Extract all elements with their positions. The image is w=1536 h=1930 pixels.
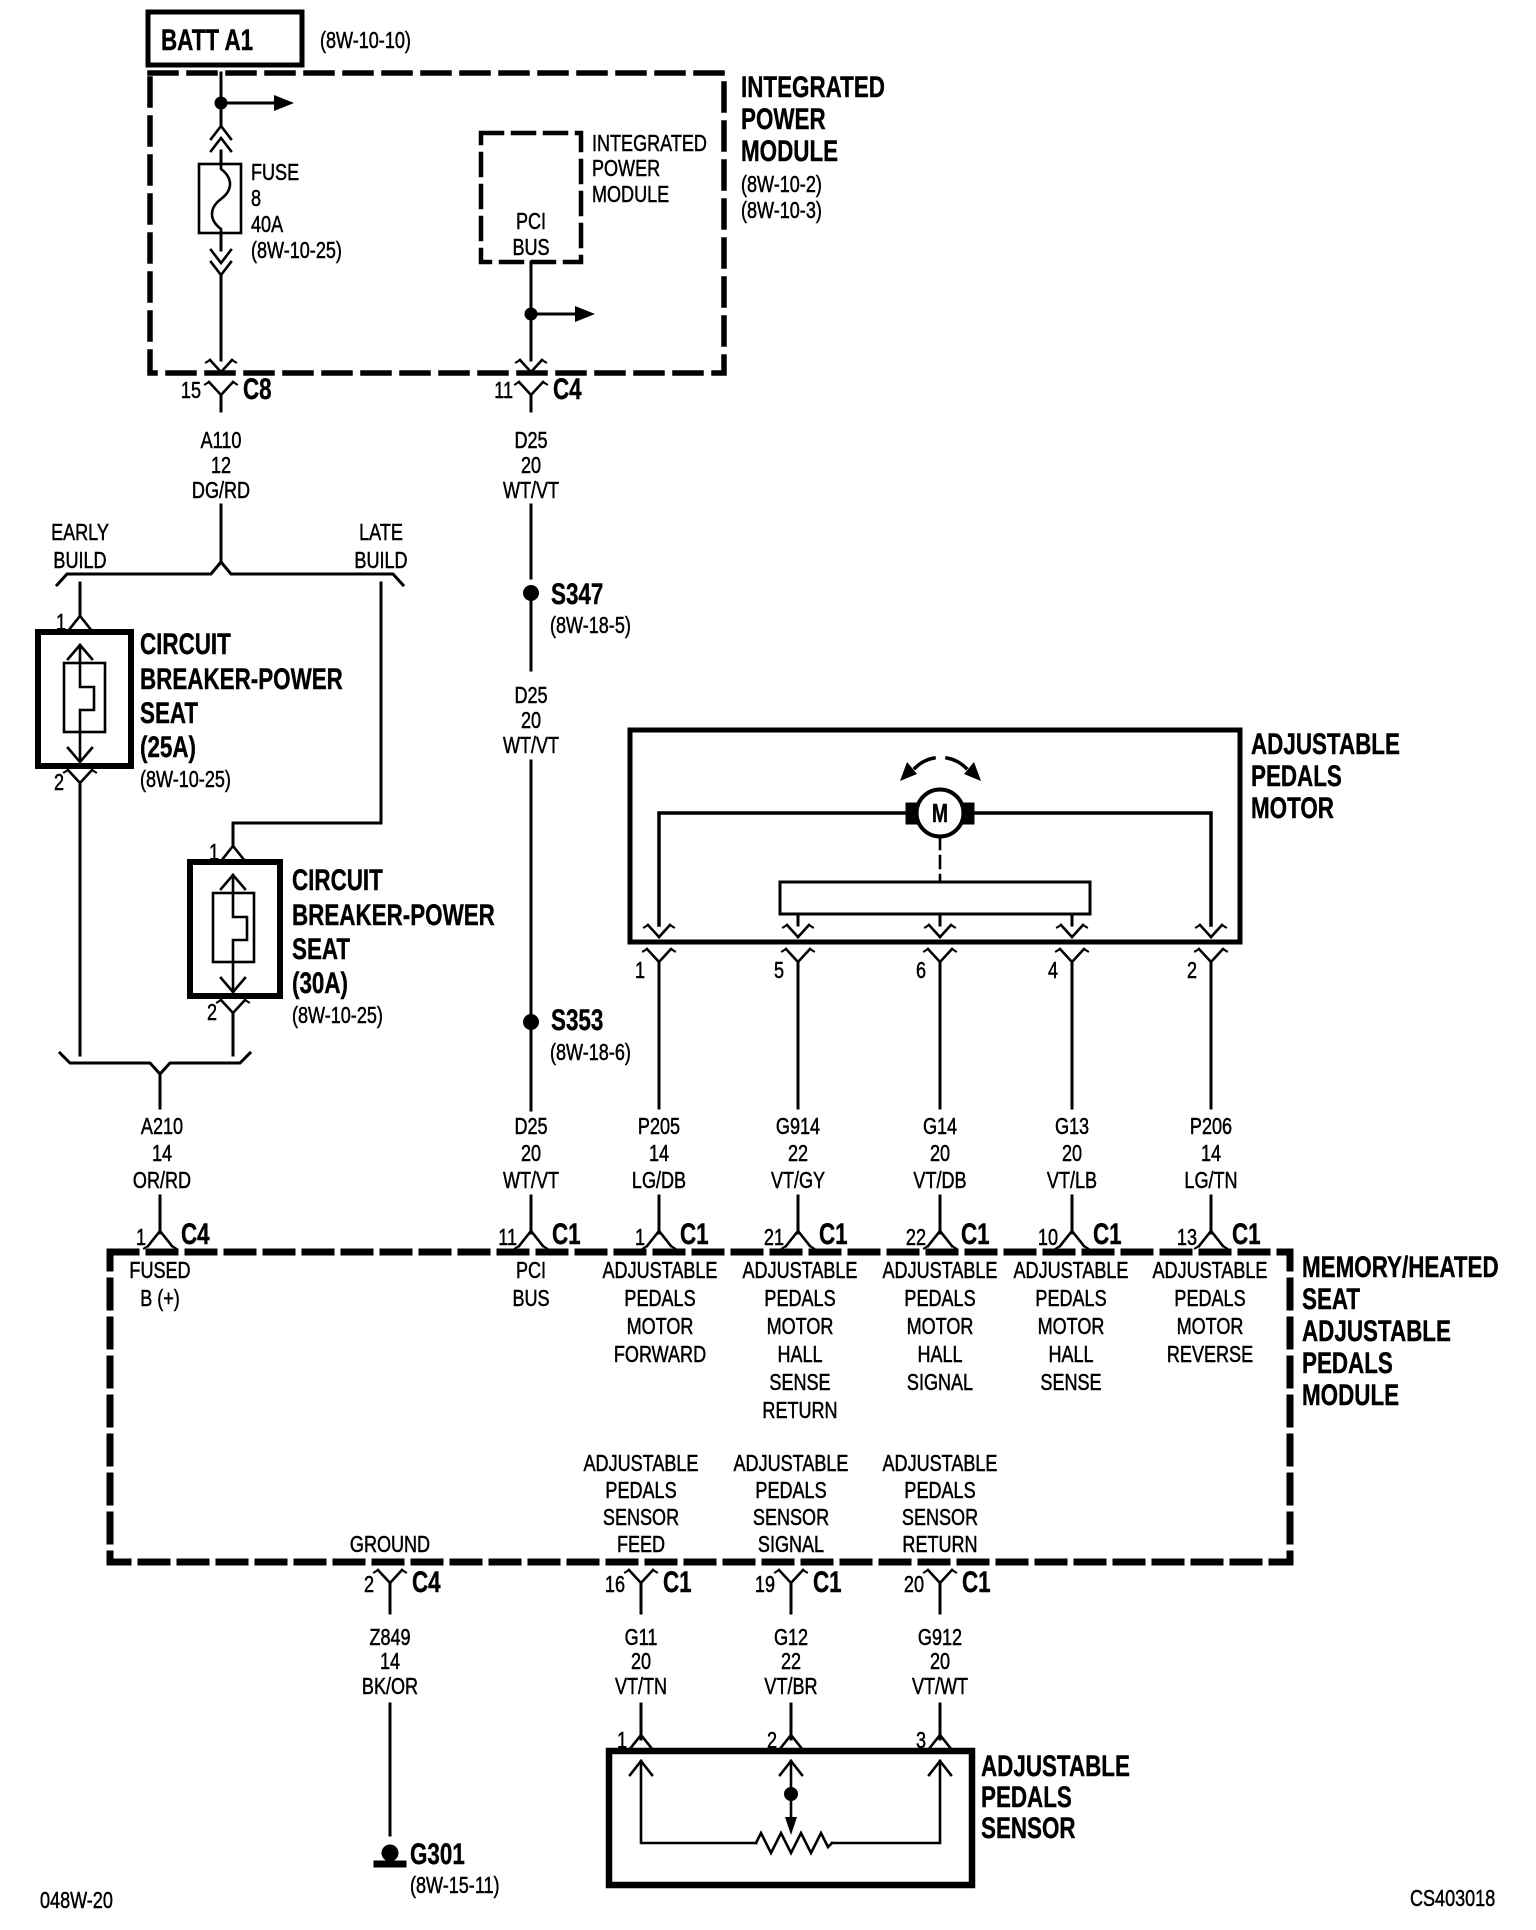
brace early/late merge <box>60 1053 250 1074</box>
svg-text:BUILD: BUILD <box>354 548 407 574</box>
wire to module connector 10 C1 <box>1071 1196 1074 1233</box>
svg-text:ADJUSTABLE: ADJUSTABLE <box>1302 1314 1451 1348</box>
svg-text:BREAKER-POWER: BREAKER-POWER <box>140 662 343 696</box>
PCI BUS dashed box inside IPM <box>481 133 581 262</box>
wire sensor pin 2 <box>790 1704 793 1739</box>
svg-text:G12: G12 <box>774 1625 808 1651</box>
sensor wiper junction <box>790 1761 793 1794</box>
svg-text:C1: C1 <box>552 1217 581 1251</box>
dashed shaft link motor to rack <box>939 837 942 882</box>
wire to module connector 13 C1 <box>1210 1196 1213 1233</box>
wire motor pin 6 down <box>939 978 942 1108</box>
svg-text:PCI: PCI <box>516 1258 546 1284</box>
svg-text:8: 8 <box>251 186 261 212</box>
svg-text:SEAT: SEAT <box>140 696 198 730</box>
svg-text:11: 11 <box>498 1225 517 1251</box>
svg-text:BUS: BUS <box>512 235 549 261</box>
splice S353 <box>523 1014 539 1030</box>
svg-text:PEDALS: PEDALS <box>605 1478 676 1504</box>
wire breaker 30A to merge brace <box>232 1029 235 1055</box>
connector chevrons above fuse <box>211 126 231 139</box>
svg-text:D25: D25 <box>514 1114 547 1140</box>
svg-text:LG/DB: LG/DB <box>632 1168 686 1194</box>
svg-text:20: 20 <box>1062 1141 1082 1167</box>
svg-text:PEDALS: PEDALS <box>624 1286 695 1312</box>
svg-text:PEDALS: PEDALS <box>764 1286 835 1312</box>
svg-text:REVERSE: REVERSE <box>1167 1342 1253 1368</box>
svg-text:HALL: HALL <box>777 1342 822 1368</box>
sensor wire pin 1 to potentiometer <box>641 1761 756 1843</box>
svg-text:RETURN: RETURN <box>902 1532 977 1558</box>
svg-text:M: M <box>932 798 948 827</box>
svg-text:PEDALS: PEDALS <box>981 1780 1072 1814</box>
svg-text:PCI: PCI <box>516 209 546 235</box>
wire early build branch <box>79 583 82 604</box>
svg-text:ADJUSTABLE: ADJUSTABLE <box>1153 1258 1268 1284</box>
svg-text:C4: C4 <box>412 1565 441 1599</box>
svg-text:SEAT: SEAT <box>292 932 350 966</box>
wire Z849 to ground <box>389 1704 392 1835</box>
svg-text:HALL: HALL <box>917 1342 962 1368</box>
svg-text:MOTOR: MOTOR <box>627 1314 694 1340</box>
svg-text:MOTOR: MOTOR <box>767 1314 834 1340</box>
wire motor pin 2 down <box>1210 978 1213 1108</box>
svg-text:INTEGRATED: INTEGRATED <box>741 70 885 104</box>
svg-text:SENSOR: SENSOR <box>902 1505 978 1531</box>
svg-text:(8W-10-25): (8W-10-25) <box>292 1003 383 1029</box>
svg-text:S353: S353 <box>551 1003 603 1037</box>
svg-text:22: 22 <box>781 1649 801 1675</box>
svg-text:OR/RD: OR/RD <box>133 1168 191 1194</box>
svg-text:ADJUSTABLE: ADJUSTABLE <box>883 1258 998 1284</box>
svg-text:BK/OR: BK/OR <box>362 1674 418 1700</box>
svg-text:40A: 40A <box>251 212 283 238</box>
svg-text:(25A): (25A) <box>140 730 196 764</box>
wire to module connector 21 C1 <box>797 1196 800 1233</box>
svg-text:VT/WT: VT/WT <box>912 1674 968 1700</box>
svg-text:RETURN: RETURN <box>762 1398 837 1424</box>
wire A110 down to build split <box>220 505 223 561</box>
svg-text:S347: S347 <box>551 577 603 611</box>
svg-text:14: 14 <box>649 1141 669 1167</box>
svg-text:SEAT: SEAT <box>1302 1282 1360 1316</box>
wire A210 to module connector <box>159 1196 162 1233</box>
svg-text:LG/TN: LG/TN <box>1184 1168 1237 1194</box>
svg-text:SIGNAL: SIGNAL <box>758 1532 824 1558</box>
svg-text:MOTOR: MOTOR <box>1177 1314 1244 1340</box>
wire sensor pin 3 <box>939 1704 942 1739</box>
svg-text:G13: G13 <box>1055 1114 1089 1140</box>
adjustable pedals motor box <box>630 730 1240 942</box>
svg-text:C1: C1 <box>1093 1217 1122 1251</box>
circuit breaker 30A box <box>190 862 280 996</box>
svg-text:LATE: LATE <box>359 520 403 546</box>
circuit breaker 25A box <box>38 632 131 766</box>
svg-text:PEDALS: PEDALS <box>1302 1346 1393 1380</box>
svg-text:C1: C1 <box>962 1565 991 1599</box>
svg-text:C4: C4 <box>181 1217 210 1251</box>
svg-text:1: 1 <box>635 1225 645 1251</box>
node battery feed junction <box>215 97 228 110</box>
svg-text:D25: D25 <box>514 428 547 454</box>
svg-text:(30A): (30A) <box>292 966 348 1000</box>
svg-text:POWER: POWER <box>592 156 660 182</box>
svg-text:(8W-15-11): (8W-15-11) <box>410 1873 500 1899</box>
svg-text:VT/DB: VT/DB <box>913 1168 966 1194</box>
svg-text:HALL: HALL <box>1048 1342 1093 1368</box>
svg-text:048W-20: 048W-20 <box>40 1888 113 1914</box>
svg-text:10: 10 <box>1038 1225 1058 1251</box>
svg-text:MODULE: MODULE <box>592 182 669 208</box>
svg-text:A110: A110 <box>201 428 242 454</box>
svg-text:FORWARD: FORWARD <box>614 1342 706 1368</box>
svg-text:ADJUSTABLE: ADJUSTABLE <box>1014 1258 1129 1284</box>
svg-text:VT/TN: VT/TN <box>615 1674 667 1700</box>
svg-text:C1: C1 <box>961 1217 990 1251</box>
wire merge to A210 label <box>159 1074 162 1108</box>
adjustable pedals sensor box <box>609 1751 972 1885</box>
svg-text:G11: G11 <box>625 1625 658 1651</box>
wire S353 to module <box>530 1030 533 1110</box>
svg-text:EARLY: EARLY <box>51 520 109 546</box>
svg-text:ADJUSTABLE: ADJUSTABLE <box>584 1451 699 1477</box>
sensor wire pin 3 to potentiometer <box>832 1761 940 1843</box>
wire breaker 25A to merge brace <box>79 799 82 1055</box>
svg-text:GROUND: GROUND <box>350 1532 430 1558</box>
sensor internal arrows <box>630 1761 652 1775</box>
svg-text:6: 6 <box>916 958 926 984</box>
svg-text:PEDALS: PEDALS <box>1035 1286 1106 1312</box>
svg-text:(8W-10-10): (8W-10-10) <box>320 28 411 54</box>
gear rack box <box>780 882 1090 914</box>
power feed box BATT A1 <box>148 12 302 65</box>
svg-text:C1: C1 <box>1232 1217 1261 1251</box>
svg-text:MEMORY/HEATED: MEMORY/HEATED <box>1302 1250 1499 1284</box>
svg-text:C1: C1 <box>819 1217 848 1251</box>
svg-text:MODULE: MODULE <box>741 134 838 168</box>
svg-text:INTEGRATED: INTEGRATED <box>592 131 707 157</box>
svg-text:2: 2 <box>364 1572 374 1598</box>
arrow feed continues right <box>221 102 274 105</box>
svg-text:WT/VT: WT/VT <box>503 478 559 504</box>
Integrated Power Module dashed box <box>150 73 724 373</box>
svg-text:ADJUSTABLE: ADJUSTABLE <box>743 1258 858 1284</box>
svg-text:BREAKER-POWER: BREAKER-POWER <box>292 898 495 932</box>
svg-text:22: 22 <box>788 1141 808 1167</box>
svg-text:SENSOR: SENSOR <box>981 1811 1076 1845</box>
svg-text:20: 20 <box>631 1649 651 1675</box>
svg-text:PEDALS: PEDALS <box>755 1478 826 1504</box>
svg-text:14: 14 <box>152 1141 172 1167</box>
motor M <box>917 790 964 837</box>
svg-text:MOTOR: MOTOR <box>1038 1314 1105 1340</box>
svg-text:Z849: Z849 <box>369 1625 410 1651</box>
fuse 8 40A <box>199 164 241 233</box>
svg-text:ADJUSTABLE: ADJUSTABLE <box>734 1451 849 1477</box>
ground G301 <box>382 1845 399 1862</box>
svg-text:MOTOR: MOTOR <box>1251 791 1334 825</box>
svg-text:(8W-10-2): (8W-10-2) <box>741 172 822 198</box>
svg-text:ADJUSTABLE: ADJUSTABLE <box>981 1749 1130 1783</box>
svg-text:SENSE: SENSE <box>769 1370 830 1396</box>
wire battery feed down from IPM edge <box>220 73 223 126</box>
wire to module connector 22 C1 <box>939 1196 942 1233</box>
svg-text:ADJUSTABLE: ADJUSTABLE <box>603 1258 718 1284</box>
svg-text:CIRCUIT: CIRCUIT <box>140 627 231 661</box>
svg-text:20: 20 <box>930 1649 950 1675</box>
module dashed box memory/heated seat adjustable pedals module <box>110 1252 1290 1562</box>
svg-text:MODULE: MODULE <box>1302 1378 1399 1412</box>
svg-text:C8: C8 <box>243 372 272 406</box>
svg-text:VT/LB: VT/LB <box>1047 1168 1097 1194</box>
wire S347 down <box>530 601 533 670</box>
svg-text:FEED: FEED <box>617 1532 665 1558</box>
wire C4 to splice S347 <box>530 505 533 578</box>
svg-text:DG/RD: DG/RD <box>192 478 250 504</box>
svg-text:POWER: POWER <box>741 102 826 136</box>
svg-text:VT/GY: VT/GY <box>771 1168 825 1194</box>
svg-text:(8W-18-5): (8W-18-5) <box>550 613 631 639</box>
svg-text:2: 2 <box>1187 958 1197 984</box>
svg-text:C1: C1 <box>680 1217 709 1251</box>
svg-text:G301: G301 <box>410 1837 465 1871</box>
svg-text:B (+): B (+) <box>140 1286 180 1312</box>
wire rack to pin 4 <box>1071 914 1074 925</box>
wire fuse to connector C8 <box>220 233 223 250</box>
svg-text:12: 12 <box>211 453 231 479</box>
potentiometer resistor <box>756 1833 832 1853</box>
svg-text:BUILD: BUILD <box>53 548 106 574</box>
wire to module connector 1 C1 <box>658 1196 661 1233</box>
svg-text:WT/VT: WT/VT <box>503 733 559 759</box>
connector chevrons below fuse <box>211 250 231 263</box>
svg-text:FUSE: FUSE <box>251 160 299 186</box>
svg-text:P206: P206 <box>1190 1114 1232 1140</box>
wire motor pin 5 down <box>797 978 800 1108</box>
sensor wiper arrow <box>790 1794 793 1820</box>
brace early/late build split <box>57 562 403 585</box>
svg-text:20: 20 <box>521 453 541 479</box>
svg-text:BATT A1: BATT A1 <box>161 23 253 57</box>
svg-text:G14: G14 <box>923 1114 957 1140</box>
wire motor left brush to pin 1 <box>659 813 906 925</box>
arrowhead at IPM edge above C4 <box>520 360 531 372</box>
svg-text:G914: G914 <box>776 1114 820 1140</box>
arrow PCI bus continues right <box>531 313 575 316</box>
svg-text:P205: P205 <box>638 1114 680 1140</box>
svg-text:C4: C4 <box>553 372 582 406</box>
svg-text:G912: G912 <box>918 1625 962 1651</box>
svg-text:5: 5 <box>774 958 784 984</box>
svg-text:BUS: BUS <box>512 1286 549 1312</box>
svg-text:22: 22 <box>906 1225 926 1251</box>
svg-text:20: 20 <box>521 1141 541 1167</box>
svg-text:SENSE: SENSE <box>1040 1370 1101 1396</box>
svg-text:11: 11 <box>494 378 513 404</box>
svg-text:13: 13 <box>1177 1225 1197 1251</box>
svg-text:20: 20 <box>904 1572 924 1598</box>
svg-text:CIRCUIT: CIRCUIT <box>292 863 383 897</box>
wire motor right brush to pin 2 <box>974 813 1211 925</box>
svg-text:SENSOR: SENSOR <box>603 1505 679 1531</box>
svg-text:(8W-18-6): (8W-18-6) <box>550 1040 631 1066</box>
wire rack to pin 6 <box>939 914 942 925</box>
wire PCI BUS down <box>530 262 533 314</box>
svg-text:20: 20 <box>521 708 541 734</box>
svg-text:15: 15 <box>181 378 201 404</box>
svg-text:16: 16 <box>605 1572 625 1598</box>
svg-text:(8W-10-25): (8W-10-25) <box>251 238 342 264</box>
svg-text:A210: A210 <box>141 1114 183 1140</box>
wire motor pin 4 down <box>1071 978 1074 1108</box>
svg-text:SENSOR: SENSOR <box>753 1505 829 1531</box>
svg-text:1: 1 <box>136 1225 146 1251</box>
svg-text:MOTOR: MOTOR <box>907 1314 974 1340</box>
svg-text:PEDALS: PEDALS <box>904 1478 975 1504</box>
svg-text:WT/VT: WT/VT <box>503 1168 559 1194</box>
svg-text:C1: C1 <box>813 1565 842 1599</box>
svg-text:SIGNAL: SIGNAL <box>907 1370 973 1396</box>
svg-text:19: 19 <box>755 1572 775 1598</box>
svg-text:(8W-10-3): (8W-10-3) <box>741 198 822 224</box>
wire motor pin 1 down <box>658 978 661 1108</box>
svg-text:14: 14 <box>1201 1141 1221 1167</box>
svg-text:PEDALS: PEDALS <box>1174 1286 1245 1312</box>
svg-text:D25: D25 <box>514 683 547 709</box>
svg-text:PEDALS: PEDALS <box>904 1286 975 1312</box>
svg-text:2: 2 <box>207 1000 217 1026</box>
svg-text:FUSED: FUSED <box>129 1258 190 1284</box>
svg-text:14: 14 <box>380 1649 400 1675</box>
svg-text:(8W-10-25): (8W-10-25) <box>140 767 231 793</box>
node PCI bus junction <box>525 308 538 321</box>
rotation arrows above motor <box>915 758 934 768</box>
wire down to splice S353 <box>530 761 533 1014</box>
svg-text:PEDALS: PEDALS <box>1251 759 1342 793</box>
svg-text:ADJUSTABLE: ADJUSTABLE <box>883 1451 998 1477</box>
svg-text:CS403018: CS403018 <box>1410 1886 1495 1912</box>
svg-text:21: 21 <box>764 1225 784 1251</box>
svg-text:20: 20 <box>930 1141 950 1167</box>
splice S347 <box>523 585 539 601</box>
svg-text:ADJUSTABLE: ADJUSTABLE <box>1251 727 1400 761</box>
svg-text:4: 4 <box>1048 958 1058 984</box>
svg-text:C1: C1 <box>663 1565 692 1599</box>
svg-text:2: 2 <box>54 770 64 796</box>
svg-text:1: 1 <box>635 958 645 984</box>
wire late build branch <box>233 583 381 841</box>
arrowhead at IPM edge above C8 <box>210 360 221 372</box>
wire rack to pin 5 <box>797 914 800 925</box>
wire sensor pin 1 <box>640 1704 643 1739</box>
wire to module connector 11 C1 <box>530 1196 533 1233</box>
svg-text:VT/BR: VT/BR <box>764 1674 817 1700</box>
